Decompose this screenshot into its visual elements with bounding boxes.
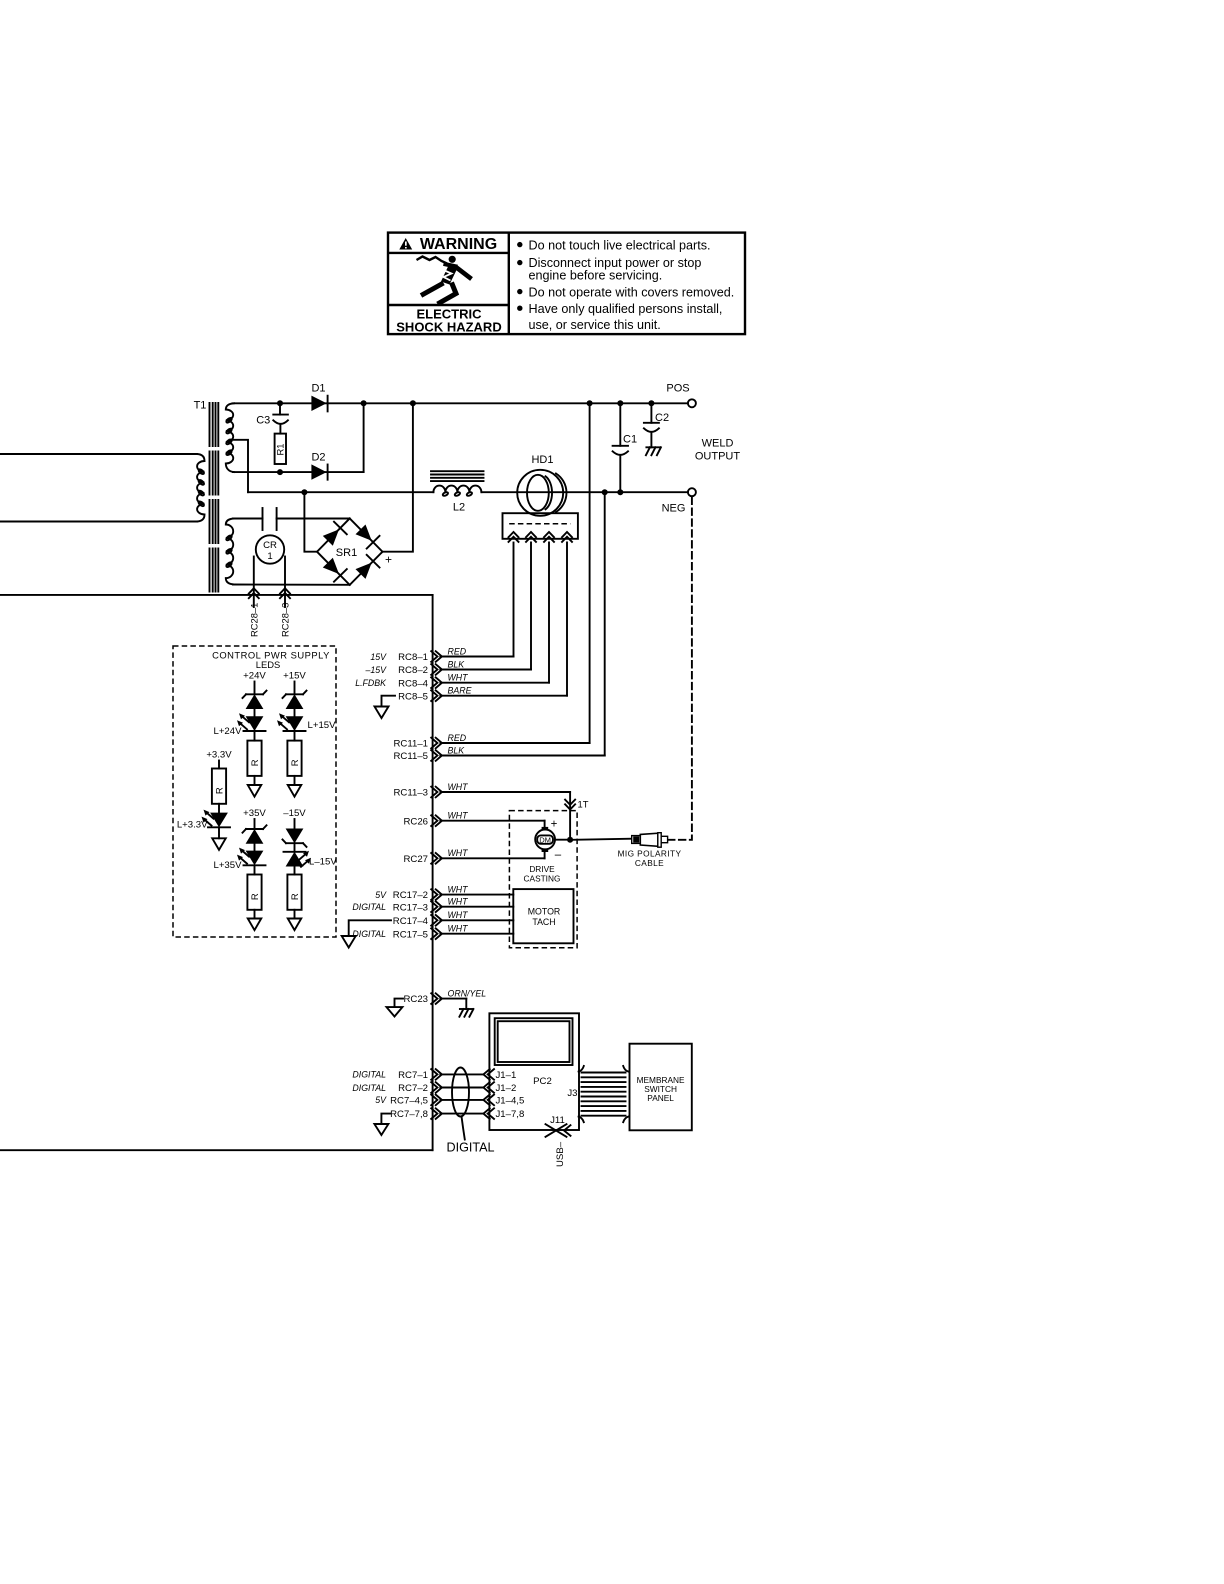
wire RC8-1 <box>440 656 513 658</box>
wire POS top rail <box>233 402 688 404</box>
wire motor output <box>555 839 570 841</box>
wire secondary2 bottom to SR1 bottom corner <box>233 584 350 586</box>
wire <box>294 709 296 716</box>
svg-text:RC8–4: RC8–4 <box>398 678 429 689</box>
ground <box>288 785 302 797</box>
wire harness bottom horizontal <box>0 1149 433 1151</box>
wire <box>294 776 296 785</box>
node junction top rail at SR1 output <box>410 400 416 406</box>
svg-text:C1: C1 <box>623 433 637 445</box>
wire RC8-4 <box>440 682 549 684</box>
wire RC7-1 <box>440 1073 483 1075</box>
wire D2 return up to top rail <box>363 403 365 472</box>
LED L+3.3V <box>177 810 230 831</box>
svg-text:RC11–5: RC11–5 <box>394 751 429 762</box>
svg-text:HD1: HD1 <box>531 454 553 466</box>
ground <box>212 838 226 850</box>
node junction motor output <box>567 837 573 843</box>
wire center tap <box>230 440 249 492</box>
svg-text:5V: 5V <box>375 1095 387 1105</box>
connector J11 <box>546 1115 571 1137</box>
svg-text:R: R <box>249 893 260 900</box>
svg-text:MOTOR: MOTOR <box>528 907 561 917</box>
svg-text:R: R <box>249 759 260 766</box>
svg-text:RC7–7,8: RC7–7,8 <box>390 1109 428 1120</box>
svg-text:BLK: BLK <box>448 745 466 755</box>
svg-text:5V: 5V <box>375 890 387 900</box>
wire RC11-5 <box>440 755 604 757</box>
wire <box>254 731 256 741</box>
wire <box>218 761 220 769</box>
svg-text:RC8–2: RC8–2 <box>398 665 428 676</box>
node junction top rail at RC11-1 drop <box>587 400 593 406</box>
SR1 diode bottom-right <box>356 555 380 579</box>
svg-text:–15V: –15V <box>364 665 387 675</box>
svg-text:J1–4,5: J1–4,5 <box>496 1096 525 1107</box>
transformer T1 secondary 2 winding <box>225 519 234 585</box>
capacitor C2 <box>644 403 669 447</box>
svg-text:L2: L2 <box>453 502 465 514</box>
wire <box>254 910 256 919</box>
diode D2 <box>311 452 327 480</box>
svg-text:ORN/YEL: ORN/YEL <box>448 988 487 998</box>
MIG polarity cable <box>573 833 682 868</box>
svg-text:+24V: +24V <box>243 670 266 681</box>
svg-text:1T: 1T <box>578 799 589 810</box>
svg-text:WHT: WHT <box>448 924 469 934</box>
wire <box>294 867 296 875</box>
diode D1 <box>311 382 327 411</box>
inductor L2 winding <box>433 486 481 514</box>
svg-text:Do not touch live electrical p: Do not touch live electrical parts. <box>529 238 711 252</box>
svg-text:TACH: TACH <box>532 917 555 927</box>
svg-text:D2: D2 <box>311 452 325 464</box>
svg-text:Have only qualified persons in: Have only qualified persons install, <box>529 302 723 316</box>
connector RC23 <box>403 993 441 1005</box>
connector 1T <box>565 799 589 810</box>
svg-text:RC7–1: RC7–1 <box>398 1070 428 1081</box>
svg-text:1: 1 <box>267 551 272 562</box>
bridge rectifier SR1 body <box>317 518 383 585</box>
PC2 board box <box>489 1013 579 1130</box>
WELD OUTPUT label <box>695 438 741 463</box>
resistor R (+35V) <box>247 875 261 910</box>
ground <box>248 919 262 931</box>
connector J1-2 <box>483 1082 516 1094</box>
ground <box>248 785 262 797</box>
wire capacitor to SR1 top corner <box>277 518 350 520</box>
svg-text:RC28–1: RC28–1 <box>248 603 259 637</box>
wire SR1 positive output to top rail <box>383 403 413 551</box>
resistor R1 <box>275 434 286 464</box>
wire <box>254 709 256 716</box>
resistor R (+3.3V) <box>212 769 226 804</box>
drive casting dashed box <box>509 811 577 948</box>
resistor R (+24V) <box>247 741 261 776</box>
connector RC7-2 <box>352 1082 441 1094</box>
chassis ground under C2 <box>646 447 661 455</box>
membrane switch panel box <box>630 1044 692 1131</box>
svg-text:15V: 15V <box>370 652 387 662</box>
connector RC7-1 <box>352 1069 441 1081</box>
SR1 diode bottom-left <box>323 558 347 582</box>
svg-text:CASTING: CASTING <box>524 873 561 883</box>
svg-text:WHT: WHT <box>448 848 469 858</box>
zener diode +35V <box>243 825 267 843</box>
connector RC27 <box>403 853 441 865</box>
ground stub RC23 <box>387 999 404 1017</box>
svg-text:engine before servicing.: engine before servicing. <box>529 268 663 282</box>
connector RC28-1 <box>248 588 259 637</box>
svg-text:WELD: WELD <box>702 438 734 450</box>
transformer T1 primary winding <box>197 454 205 522</box>
svg-text:J11: J11 <box>550 1115 565 1126</box>
connector RC11-5 <box>394 750 442 762</box>
wire RC27 <box>440 857 544 859</box>
svg-text:RC17–2: RC17–2 <box>393 890 428 901</box>
svg-text:T1: T1 <box>194 400 207 412</box>
connector RC7-7,8 <box>390 1108 442 1120</box>
warning label box <box>388 233 745 335</box>
wire RC11-3 <box>440 791 570 793</box>
svg-text:RC7–4,5: RC7–4,5 <box>390 1096 428 1107</box>
ground stub RC7-7,8 <box>374 1114 390 1135</box>
wire RC7-2 <box>440 1087 483 1089</box>
wire RC7-4,5 <box>440 1099 483 1101</box>
ground <box>288 919 302 931</box>
node junction top rail at D2 return <box>361 400 367 406</box>
connector RC8-5 <box>398 690 442 702</box>
node junction top rail at C1 <box>617 400 623 406</box>
svg-text:WHT: WHT <box>448 884 469 894</box>
svg-text:C3: C3 <box>256 415 270 427</box>
svg-text:RC28–3: RC28–3 <box>280 603 291 637</box>
SR1 diode top-right <box>356 525 380 549</box>
digital leader line <box>462 1116 465 1139</box>
svg-text:C2: C2 <box>655 412 669 424</box>
svg-text:D1: D1 <box>311 382 325 394</box>
zener diode +24V <box>243 691 267 709</box>
wire <box>218 804 220 813</box>
svg-text:+35V: +35V <box>243 808 266 819</box>
connector J1-4,5 <box>483 1095 524 1107</box>
wire secondary2 top to SR1 top corner <box>233 518 263 520</box>
wire <box>254 865 256 874</box>
connector RC7-4,5 <box>375 1095 442 1107</box>
connector RC8-4 <box>355 677 442 689</box>
capacitor C1 <box>613 403 637 492</box>
svg-text:L+24V: L+24V <box>213 726 242 737</box>
svg-text:DIGITAL: DIGITAL <box>352 1070 386 1080</box>
wire RC11-5 drop to NEG rail <box>604 492 606 755</box>
inductor L2 core <box>431 471 484 481</box>
svg-text:PC2: PC2 <box>533 1076 552 1087</box>
wire RC11-1 <box>440 742 589 744</box>
LED L+24V <box>213 713 265 737</box>
LED L-15V <box>284 851 338 868</box>
svg-text:SR1: SR1 <box>336 547 357 559</box>
svg-text:WHT: WHT <box>448 811 469 821</box>
wire RC8-5 <box>440 695 567 697</box>
svg-text:R: R <box>289 893 300 900</box>
warning triangle icon <box>399 238 412 250</box>
connector RC26 <box>403 815 441 827</box>
wire <box>294 819 296 829</box>
svg-text:RED: RED <box>448 646 467 656</box>
wire <box>294 843 296 852</box>
wire RC26 to motor + <box>544 821 546 827</box>
connector RC17-5 <box>352 928 441 940</box>
wire RC8-2 <box>440 669 531 671</box>
wire RC17-3 <box>440 906 513 908</box>
svg-text:L+35V: L+35V <box>213 860 242 871</box>
node junction center tap / SR1 negative <box>301 489 307 495</box>
wire primary top lead-in <box>0 453 197 455</box>
svg-text:RC17–4: RC17–4 <box>393 916 429 927</box>
svg-text:RC23: RC23 <box>403 994 428 1005</box>
svg-text:RC8–1: RC8–1 <box>398 652 428 663</box>
connector RC11-1 <box>394 738 442 750</box>
svg-text:BARE: BARE <box>448 686 472 696</box>
electric shock person icon <box>417 256 472 304</box>
svg-text:J1–2: J1–2 <box>496 1083 517 1094</box>
svg-text:L+3.3V: L+3.3V <box>177 820 208 831</box>
wire HD1 lead 4 down <box>566 543 568 696</box>
svg-text:J1–7,8: J1–7,8 <box>496 1109 525 1120</box>
svg-text:RC27: RC27 <box>403 854 428 865</box>
svg-text:–: – <box>555 849 562 861</box>
connector RC8-2 <box>364 664 441 676</box>
SR1 diode top-left <box>323 522 347 546</box>
svg-text:J1–1: J1–1 <box>496 1070 517 1081</box>
LED L+15V <box>277 713 336 731</box>
wire RC23 <box>440 998 466 1000</box>
wire <box>254 844 256 851</box>
wire CR1 left lead <box>253 557 255 608</box>
svg-text:RC8–5: RC8–5 <box>398 691 428 702</box>
control power supply LED box <box>173 646 336 937</box>
drive casting label <box>524 864 561 884</box>
wire HD1 lead 3 down <box>548 543 550 683</box>
wire <box>294 682 296 695</box>
svg-text:USB–: USB– <box>555 1141 566 1167</box>
node junction NEG rail at C1 <box>617 489 623 495</box>
node junction NEG rail at RC11-5 drop <box>602 489 608 495</box>
svg-text:DIGITAL: DIGITAL <box>352 902 386 912</box>
zener diode +15V <box>283 691 307 709</box>
wire primary bottom lead-in <box>0 521 197 523</box>
ground stub RC17-4 <box>342 920 391 947</box>
svg-text:RC26: RC26 <box>403 816 428 827</box>
svg-text:RC17–5: RC17–5 <box>393 929 428 940</box>
wire secondary1 bottom to D2 <box>233 471 364 473</box>
svg-text:MIG POLARITY: MIG POLARITY <box>618 849 682 859</box>
wire HD1 lead 1 down <box>513 543 515 657</box>
connector chevrons under HD1 <box>509 532 573 542</box>
svg-text:use, or service this unit.: use, or service this unit. <box>529 318 661 332</box>
svg-text:POS: POS <box>666 383 689 395</box>
wire <box>218 827 220 838</box>
svg-text:CABLE: CABLE <box>635 858 664 868</box>
capacitor across CR1 <box>263 508 277 530</box>
svg-text:RC11–1: RC11–1 <box>394 739 429 750</box>
transformer T1 secondary 1 winding <box>225 403 234 472</box>
svg-text:L+15V: L+15V <box>308 720 337 731</box>
HD1 terminal bracket box <box>503 513 578 539</box>
svg-text:Do not operate with covers rem: Do not operate with covers removed. <box>529 285 735 299</box>
capacitor C3 <box>256 403 288 433</box>
wire RC27 to motor - <box>544 852 546 858</box>
svg-text:DIGITAL: DIGITAL <box>447 1140 495 1154</box>
svg-text:WHT: WHT <box>448 910 469 920</box>
svg-text:CR: CR <box>263 540 277 551</box>
wire <box>294 910 296 919</box>
wire <box>294 731 296 741</box>
wire SR1 negative drop <box>304 492 317 552</box>
connector RC8-1 <box>370 651 442 663</box>
svg-text:BLK: BLK <box>448 659 466 669</box>
transformer T1 core <box>210 403 219 592</box>
svg-text:WHT: WHT <box>448 897 469 907</box>
wire RC17-2 <box>440 894 513 896</box>
ground stub RC8-5 <box>375 696 396 718</box>
connector RC17-2 <box>375 889 442 901</box>
wire RC11-1 drop to POS rail <box>589 403 591 743</box>
wire RC17-4 <box>440 919 513 921</box>
connector RC17-3 <box>352 901 441 913</box>
motor DM <box>535 827 555 852</box>
digital cable bundle ellipse <box>452 1068 469 1117</box>
svg-text:+: + <box>551 819 558 831</box>
connector RC28-3 <box>280 588 291 637</box>
connector RC11-3 <box>394 787 442 799</box>
wire <box>254 776 256 785</box>
wire harness main vertical <box>432 595 434 1150</box>
POS terminal <box>666 383 696 408</box>
zener diode -15V <box>283 829 307 847</box>
wire <box>254 682 256 695</box>
warning bullet list <box>517 238 734 332</box>
wire NEG rail <box>481 491 688 493</box>
svg-text:R1: R1 <box>275 444 286 456</box>
svg-text:WHT: WHT <box>448 673 469 683</box>
PC2 display window <box>495 1018 573 1065</box>
contactor CR1 <box>256 535 284 563</box>
hall device HD1 <box>517 454 566 516</box>
motor tach box <box>513 889 573 943</box>
svg-text:+3.3V: +3.3V <box>206 749 232 760</box>
svg-text:L–15V: L–15V <box>309 856 337 867</box>
node junction top rail at C2 <box>648 400 654 406</box>
connector J1-7,8 <box>483 1108 524 1120</box>
svg-text:LEDS: LEDS <box>256 659 281 670</box>
connector J1-1 <box>483 1069 516 1081</box>
svg-text:J3: J3 <box>567 1088 577 1099</box>
svg-text:DIGITAL: DIGITAL <box>352 929 386 939</box>
wire RC7-7,8 <box>440 1113 483 1115</box>
svg-text:RC11–3: RC11–3 <box>394 788 429 799</box>
svg-text:+15V: +15V <box>283 670 306 681</box>
connector RC17-4 <box>393 915 442 927</box>
wire RC26 <box>440 820 544 822</box>
wire RC11-3 drop <box>569 792 571 840</box>
svg-text:R: R <box>289 759 300 766</box>
chassis ground ORN/YEL <box>459 999 473 1017</box>
svg-text:+: + <box>385 553 392 567</box>
node junction R1 bottom <box>277 469 283 475</box>
svg-text:DIGITAL: DIGITAL <box>352 1083 386 1093</box>
ribbon cable J3 <box>567 1066 628 1122</box>
wire <box>254 819 256 829</box>
wire harness top horizontal <box>0 594 433 596</box>
NEG terminal <box>662 488 696 514</box>
svg-text:DM: DM <box>539 836 551 845</box>
svg-text:WARNING: WARNING <box>420 236 497 253</box>
svg-text:PANEL: PANEL <box>647 1093 674 1103</box>
svg-text:L.FDBK: L.FDBK <box>355 678 387 688</box>
svg-text:R: R <box>214 787 225 794</box>
wire RC17-5 <box>440 933 513 935</box>
svg-text:–15V: –15V <box>283 808 306 819</box>
dashed weld cable from NEG <box>667 498 692 840</box>
wire HD1 lead 2 down <box>530 543 532 670</box>
svg-text:WHT: WHT <box>448 782 469 792</box>
LED L+35V <box>213 848 265 871</box>
svg-text:OUTPUT: OUTPUT <box>695 451 741 463</box>
node junction top rail at C3 <box>277 400 283 406</box>
wire CR1 right lead <box>284 557 286 608</box>
svg-text:DRIVE: DRIVE <box>529 864 555 874</box>
wire center tap rail to L2 <box>248 491 433 493</box>
svg-text:NEG: NEG <box>662 503 686 515</box>
svg-text:RC17–3: RC17–3 <box>393 902 428 913</box>
svg-text:RED: RED <box>448 733 467 743</box>
svg-text:RC7–2: RC7–2 <box>398 1083 428 1094</box>
resistor R (+15V) <box>287 741 301 776</box>
svg-text:SHOCK HAZARD: SHOCK HAZARD <box>396 319 501 334</box>
resistor R (-15V) <box>287 875 301 910</box>
